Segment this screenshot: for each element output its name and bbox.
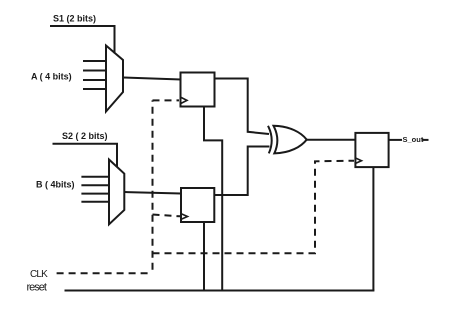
wire register 1 output to XOR top input <box>215 79 270 135</box>
register 2 clock triangle <box>182 214 188 219</box>
register 3 (output) <box>355 133 388 167</box>
wire CLK dashed branch to register 3 <box>153 161 355 254</box>
wire mux B output to register 2 <box>124 192 181 194</box>
wire CLK dashed vertical trunk <box>152 100 154 269</box>
svg-text:S2 ( 2 bits): S2 ( 2 bits) <box>62 131 108 141</box>
wire XOR output to register 3 <box>307 139 355 141</box>
register 3 clock triangle <box>356 158 362 163</box>
svg-text:reset: reset <box>27 281 47 293</box>
svg-text:S_out: S_out <box>403 135 424 144</box>
wire register 2 bottom to reset line <box>203 222 205 291</box>
wire register 1 bottom to reset line <box>204 107 222 291</box>
wire register 2 output to XOR bottom input <box>214 147 269 196</box>
svg-text:A ( 4 bits): A ( 4 bits) <box>31 72 72 82</box>
XOR gate body <box>274 126 307 154</box>
wire S1 to mux A select <box>50 26 115 54</box>
wire stub after S_out <box>422 139 428 141</box>
wire S2 to mux B select <box>53 144 118 167</box>
register 1 clock triangle <box>181 97 187 103</box>
wire A input bit 2 <box>83 79 106 81</box>
wire mux A output to register 1 <box>123 78 181 80</box>
wire reset line <box>65 290 375 292</box>
svg-text:CLK: CLK <box>30 269 48 280</box>
wire B input bit 0 <box>81 176 109 178</box>
wire register 3 bottom to reset line <box>372 167 374 291</box>
svg-text:S1 (2 bits): S1 (2 bits) <box>53 13 96 23</box>
wire A input bit 3 <box>83 88 106 90</box>
mux B <box>109 160 124 225</box>
wire A input bit 1 <box>83 70 106 72</box>
wire B input bit 1 <box>81 184 109 186</box>
wire B input bit 2 <box>81 193 109 195</box>
wire CLK dashed horizontal <box>57 272 150 274</box>
register 1 (A) <box>181 73 215 107</box>
register 2 (B) <box>181 188 214 222</box>
wire B input bit 3 <box>81 201 109 203</box>
svg-text:B ( 4bits): B ( 4bits) <box>36 180 75 190</box>
wire CLK dashed branch to register 1 <box>153 99 180 101</box>
XOR gate input arc <box>268 126 272 154</box>
wire CLK dashed branch to register 2 <box>153 215 181 217</box>
wire register 3 output <box>389 139 402 141</box>
wire A input bit 0 <box>83 60 106 62</box>
mux A <box>106 46 123 112</box>
